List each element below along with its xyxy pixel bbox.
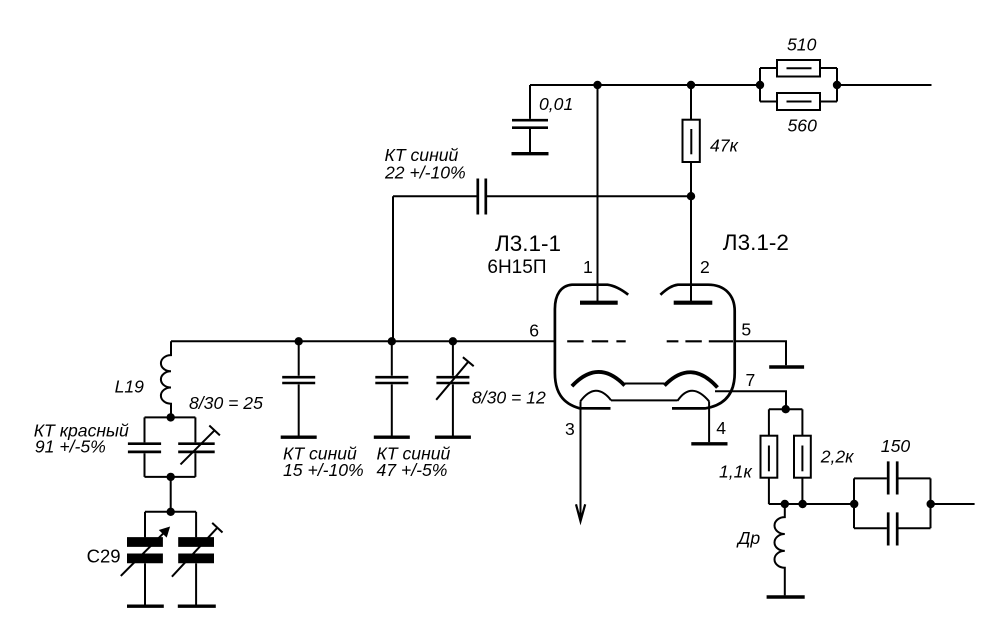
wire: resistor pair branch top [769, 408, 803, 410]
svg-text:Л3.1-2: Л3.1-2 [723, 230, 789, 255]
svg-text:8/30 = 12: 8/30 = 12 [472, 387, 546, 407]
capacitor 150 bottom plates [888, 512, 897, 545]
wire: branch from feedback line down to grid line [392, 196, 394, 341]
wire: pin 5 grid 2 to chassis [735, 341, 786, 365]
variable capacitor C29 section a plates [127, 542, 163, 558]
node bottom rail at 2,2к [798, 500, 806, 508]
svg-text:91 +/-5%: 91 +/-5% [35, 436, 106, 456]
trimmer capacitor 8/30=25 (right branch leads) [194, 417, 196, 477]
node pin 7 branch [782, 405, 790, 413]
heater 2 [678, 391, 710, 402]
node grid line at 8/30=12 [449, 337, 457, 345]
wire: top HT rail left segment [530, 84, 760, 86]
node grid line at КТ синий 15 [295, 337, 303, 345]
wire: anode 2 lead (pin 2) [690, 196, 692, 302]
node tank box 1 top [167, 413, 175, 421]
capacitor КТ синий 47 lead [391, 341, 393, 435]
tank box 1: top wire [145, 416, 196, 418]
trimmer capacitor 8/30=25 plates [178, 444, 215, 452]
svg-text:3: 3 [565, 419, 575, 439]
variable capacitor C29 section a arrowhead [159, 527, 170, 538]
node top rail at pin1 lead [593, 81, 601, 89]
inductor L19 [161, 341, 171, 417]
svg-text:2,2к: 2,2к [820, 447, 854, 467]
svg-text:6: 6 [529, 320, 539, 340]
chassis terminal under КТ синий 47 [374, 436, 410, 439]
chassis terminal under C29 a [127, 605, 164, 608]
svg-text:4: 4 [716, 418, 726, 438]
svg-text:7: 7 [746, 370, 756, 390]
wire: cathode network bottom rail [769, 503, 854, 505]
wire: heater tie line [611, 399, 678, 401]
tank box 1: bottom wire [145, 476, 196, 478]
chassis terminal under 8/30=12 [435, 436, 471, 439]
trimmer capacitor 8/30=12 plates [436, 377, 469, 383]
wire: feedback line y=195.6 [393, 195, 691, 197]
svg-text:2: 2 [700, 257, 710, 277]
resistor 510 inner mark [787, 67, 812, 69]
trimmer capacitor 8/30=25 arrow [181, 426, 220, 465]
svg-text:1: 1 [583, 257, 593, 277]
cathode 2 [664, 372, 717, 387]
node grid line at КТ синий 47 [388, 337, 396, 345]
svg-text:Л3.1-1: Л3.1-1 [495, 231, 561, 256]
svg-text:1,1к: 1,1к [719, 462, 752, 482]
variable capacitor C29: top wire [145, 511, 196, 513]
node tank box 1 bottom [167, 473, 175, 481]
svg-text:8/30 = 25: 8/30 = 25 [189, 393, 263, 413]
svg-text:150: 150 [881, 436, 911, 456]
variable capacitor C29 section a lead [144, 512, 146, 538]
resistor 560 leads [760, 101, 837, 103]
resistor 1,1к inner mark [768, 446, 770, 472]
node parallel pair left [756, 81, 764, 89]
wire: parallel pair left vertical [759, 68, 761, 102]
variable capacitor C29 section a arrow [121, 531, 166, 576]
chassis terminal pin 5 [769, 365, 804, 368]
node C29 top [167, 508, 175, 516]
resistor 510 body [777, 60, 820, 77]
grid 1 (dashed) [567, 340, 626, 342]
resistor 47к lead top [690, 85, 692, 120]
anode 1 [580, 301, 618, 305]
node 150 loop left [850, 500, 858, 508]
resistor 47к body [683, 120, 700, 162]
node bottom rail at Др [781, 500, 789, 508]
variable capacitor C29 section b plates [178, 542, 214, 558]
svg-text:47к: 47к [710, 136, 739, 156]
svg-text:47 +/-5%: 47 +/-5% [377, 460, 448, 480]
svg-text:6Н15П: 6Н15П [487, 257, 546, 278]
variable capacitor C29 section b lead bottom [195, 563, 197, 604]
pin 3 arrowhead [576, 504, 585, 521]
svg-text:22 +/-10%: 22 +/-10% [384, 163, 466, 183]
node parallel pair right [833, 81, 841, 89]
trimmer capacitor 8/30=12 arrow [436, 357, 474, 400]
chassis terminal under Др [767, 595, 805, 598]
svg-text:С29: С29 [87, 546, 121, 567]
resistor 47к inner mark [690, 129, 692, 154]
svg-text:15 +/-10%: 15 +/-10% [283, 460, 364, 480]
wire: connector between tank boxes [170, 477, 172, 512]
wire: pin 7 cathode out [715, 391, 786, 409]
capacitor 150 loop left [853, 478, 855, 528]
svg-text:L19: L19 [115, 377, 145, 397]
wire: pin 3 lead [580, 401, 582, 521]
chassis terminal pin 4 [691, 442, 727, 445]
wire: top HT rail right segment [837, 84, 932, 86]
resistor 2,2к inner mark [801, 446, 803, 472]
capacitor КТ синий 22 plates [478, 179, 486, 215]
resistor 2,2к lead bottom [801, 478, 803, 504]
resistor 2,2к lead top [801, 409, 803, 435]
node 150 loop right [927, 500, 935, 508]
chassis terminal under КТ синий 15 [281, 436, 317, 439]
cathode 1 [572, 372, 625, 386]
resistor 2,2к body [794, 436, 811, 478]
capacitor 0,01 (leads) [529, 85, 531, 152]
chassis terminal under C29 b [178, 605, 216, 608]
resistor 510 leads [760, 67, 837, 69]
node feedback line at anode 2 [687, 192, 695, 200]
wire: output rail right [931, 503, 975, 505]
capacitor 150 bottom arm leads [854, 527, 931, 529]
capacitor 150 top plates [888, 461, 897, 494]
svg-text:510: 510 [787, 35, 817, 55]
svg-text:Др: Др [736, 528, 760, 548]
svg-text:5: 5 [741, 320, 751, 340]
wire: pin 4 lead [708, 401, 710, 442]
resistor 47к lead bottom [690, 162, 692, 196]
capacitor 150 top arm leads [854, 477, 931, 479]
inductor Др [774, 504, 784, 595]
variable capacitor C29 section b trimmer arrow [172, 523, 223, 577]
capacitor КТ красный 91 (left branch leads) [144, 417, 146, 477]
svg-text:0,01: 0,01 [539, 94, 573, 114]
heater 1 [580, 391, 611, 402]
anode 2 [674, 301, 713, 305]
resistor 1,1к lead bottom [768, 478, 770, 504]
capacitor КТ синий 15 lead [298, 341, 300, 435]
tube envelope right section [660, 285, 734, 409]
wire: cathode tie line [625, 383, 665, 385]
resistor 560 body [777, 93, 820, 110]
tube envelope left section [555, 285, 628, 409]
variable capacitor C29 section b lead [195, 512, 197, 538]
capacitor 0,01 plates [512, 120, 548, 128]
resistor 1,1к lead top [768, 409, 770, 435]
capacitor КТ красный 91 plates [128, 444, 161, 452]
node top rail at 47к [687, 81, 695, 89]
capacitor КТ синий 15 plates [282, 377, 315, 383]
svg-text:560: 560 [788, 116, 818, 136]
grid 2 (dashed) [667, 340, 733, 342]
trimmer capacitor 8/30=12 lead [452, 341, 454, 435]
wire: grid tank line [171, 340, 555, 342]
chassis terminal under 0,01 [512, 152, 549, 155]
resistor 560 inner mark [787, 101, 812, 103]
resistor 1,1к body [761, 436, 778, 478]
wire: anode 1 lead (pin 1) [597, 85, 599, 302]
variable capacitor C29 section a lead bottom [144, 563, 146, 604]
capacitor КТ синий 47 plates [375, 377, 408, 383]
capacitor 150 loop right [930, 478, 932, 528]
wire: parallel pair right vertical [836, 68, 838, 102]
